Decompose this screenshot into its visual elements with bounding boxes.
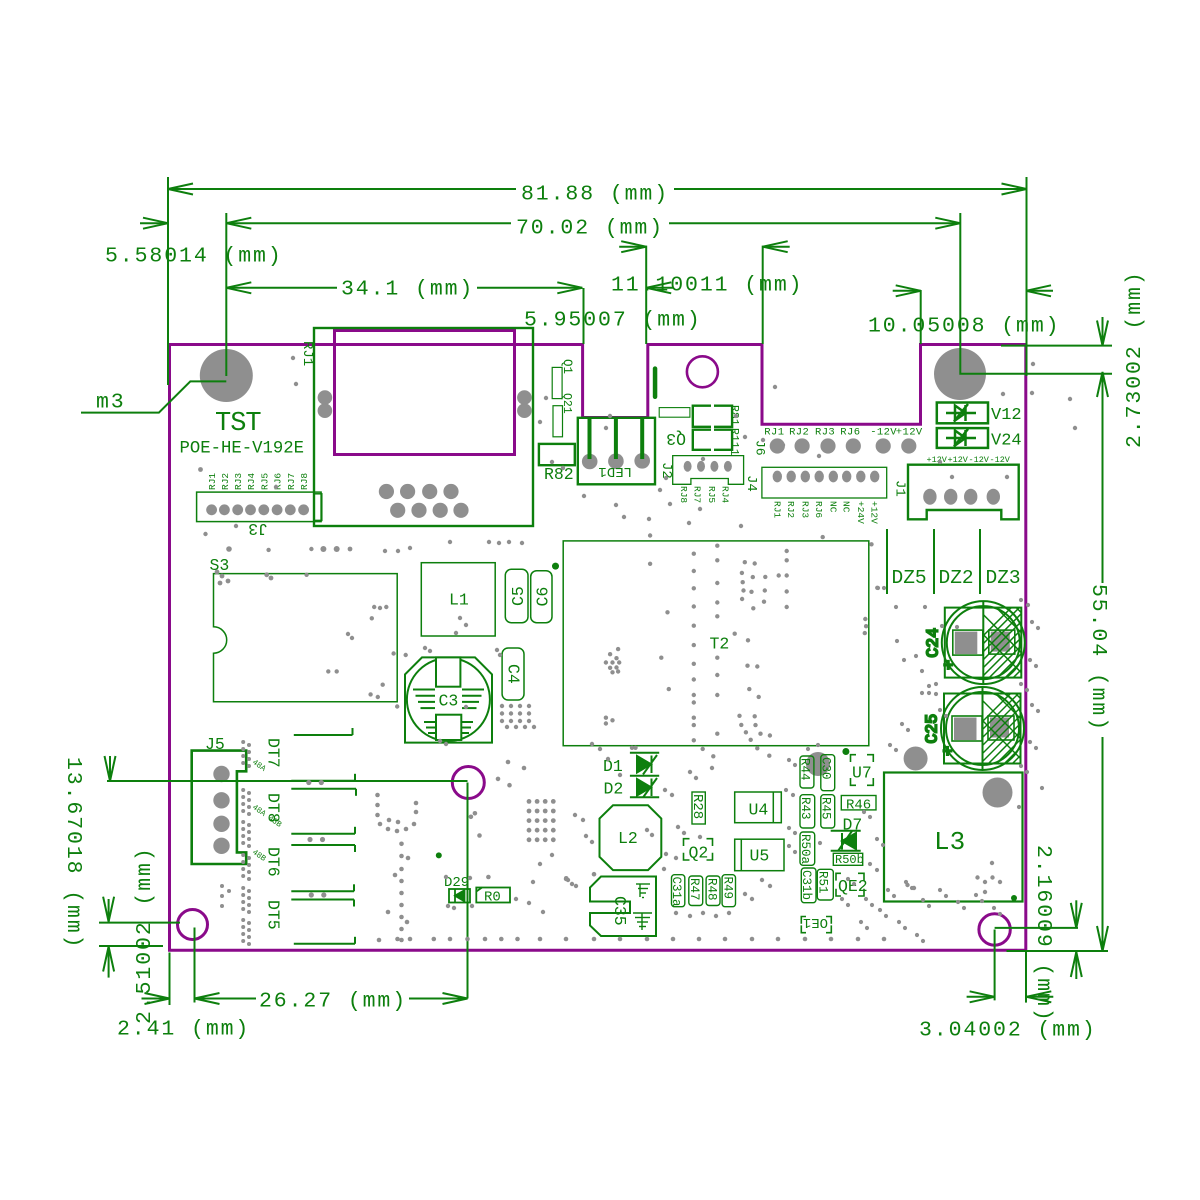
- svg-text:R48: R48: [705, 878, 719, 901]
- resistor R82: [539, 444, 575, 465]
- connector RJ1 courtyard: [314, 328, 533, 526]
- J4 pads: [773, 471, 782, 483]
- svg-text:RJ8: RJ8: [299, 473, 310, 490]
- dim 55.04 extension bottom: [1007, 950, 1109, 952]
- svg-text:RJ7: RJ7: [286, 473, 297, 490]
- mounting hole pad top-right: [934, 348, 986, 400]
- svg-text:D2: D2: [604, 780, 624, 799]
- dim 2.41 arrow: [145, 993, 170, 1004]
- dim 70.02 extension left: [225, 213, 227, 376]
- connector J3: [197, 492, 322, 521]
- svg-text:OE1: OE1: [803, 914, 828, 930]
- diode D29: [449, 889, 470, 903]
- svg-text:L2: L2: [618, 829, 638, 848]
- svg-text:Q2: Q2: [689, 844, 709, 863]
- svg-text:POE-HE-V192E: POE-HE-V192E: [180, 440, 304, 459]
- svg-text:RJ1: RJ1: [207, 473, 218, 490]
- svg-text:J5: J5: [205, 735, 225, 754]
- svg-text:34.1 (mm): 34.1 (mm): [341, 278, 474, 302]
- diode V12: [937, 403, 988, 424]
- svg-text:55.04 (mm): 55.04 (mm): [1086, 584, 1110, 732]
- svg-text:U5: U5: [750, 847, 770, 866]
- dim 2.73002 extension: [1001, 345, 1112, 347]
- svg-text:RJ5: RJ5: [706, 486, 717, 503]
- via dots: [500, 704, 504, 708]
- svg-text:RJ5: RJ5: [259, 473, 270, 490]
- transistor Q2 brackets: [684, 839, 713, 860]
- net DZ ticks: [887, 529, 980, 594]
- svg-text:3.04002 (mm): 3.04002 (mm): [919, 1019, 1097, 1043]
- svg-text:R0: R0: [484, 890, 501, 906]
- connector LED1: [578, 418, 655, 485]
- svg-text:Q3: Q3: [666, 429, 686, 448]
- inductor L2: [600, 805, 662, 870]
- svg-text:C4: C4: [504, 664, 523, 684]
- pad circles near L3: [806, 752, 830, 776]
- svg-text:DT5: DT5: [264, 900, 283, 930]
- diode D1: [630, 753, 659, 775]
- svg-text:C3: C3: [439, 692, 459, 711]
- svg-text:+24V: +24V: [855, 501, 866, 524]
- capacitor C25: [923, 687, 1109, 770]
- dim 10.05008 extension: [920, 290, 922, 344]
- svg-text:DT7: DT7: [264, 738, 283, 768]
- svg-text:J3: J3: [248, 519, 268, 538]
- capacitor C24: [923, 601, 1109, 684]
- svg-text:+12V: +12V: [948, 455, 969, 465]
- mounting hole pad TST top-left: [200, 349, 253, 402]
- svg-text:R111: R111: [727, 428, 740, 456]
- svg-text:C31a: C31a: [669, 877, 683, 908]
- DT6 pads: [291, 884, 354, 906]
- IC S3: [214, 574, 398, 702]
- svg-text:TST: TST: [215, 409, 261, 439]
- diode V24: [937, 428, 988, 448]
- svg-text:R28: R28: [689, 794, 705, 819]
- dim 26.27 line: [195, 998, 257, 1000]
- resistor R111: [693, 430, 732, 450]
- connector J5: [192, 751, 247, 864]
- svg-text:11.10011 (mm): 11.10011 (mm): [611, 274, 803, 298]
- svg-text:70.02 (mm): 70.02 (mm): [516, 217, 664, 241]
- connector J1: [908, 465, 1019, 520]
- svg-text:R44: R44: [798, 758, 812, 781]
- capacitor C6: [531, 571, 552, 623]
- hole mounting bottom-right: [979, 914, 1010, 945]
- svg-text:R45: R45: [819, 797, 833, 820]
- dim 11.10011 arrows: [621, 241, 646, 252]
- dim 2.16009 extension: [995, 927, 1078, 929]
- dim 81.88 line: [168, 188, 516, 190]
- svg-text:NC: NC: [827, 501, 838, 513]
- svg-text:2.16009 (mm): 2.16009 (mm): [1031, 845, 1055, 1023]
- resistor R0: [476, 888, 510, 903]
- capacitor C35: [590, 877, 656, 937]
- dim 2.16009 arrows: [1075, 900, 1077, 928]
- dim 81.88 extension left: [167, 177, 169, 385]
- svg-text:RJ2: RJ2: [785, 501, 796, 518]
- dim 11.10011 extension: [762, 246, 764, 344]
- J1 pads: [923, 489, 936, 505]
- dim 26.27 extensions: [194, 928, 196, 1003]
- dim 2.51002 arrows: [108, 899, 110, 922]
- svg-text:C30: C30: [819, 757, 833, 780]
- dim 81.88 extension right: [1026, 177, 1028, 376]
- capacitor C3: [405, 657, 492, 742]
- svg-text:R46: R46: [846, 798, 871, 814]
- resistor R43: [800, 795, 815, 828]
- transistor QE2 brackets: [836, 873, 864, 896]
- resistor R50a: [800, 832, 815, 865]
- J6 pads: [770, 438, 785, 453]
- svg-text:-12V: -12V: [870, 427, 897, 439]
- svg-text:S3: S3: [210, 556, 230, 575]
- leader m3: [81, 381, 226, 412]
- svg-text:13.67018 (mm): 13.67018 (mm): [61, 757, 85, 949]
- svg-text:DZ2: DZ2: [939, 567, 974, 589]
- svg-text:RJ4: RJ4: [719, 486, 730, 503]
- J3 pads: [206, 504, 217, 515]
- pad bar: [653, 366, 658, 399]
- svg-text:C6: C6: [534, 587, 553, 607]
- svg-text:C24: C24: [923, 628, 942, 658]
- capacitor C5: [505, 569, 528, 622]
- svg-text:DZ5: DZ5: [892, 567, 927, 589]
- svg-text:R50b: R50b: [835, 853, 864, 867]
- resistor R12: [659, 408, 690, 418]
- DT8 pads: [291, 827, 355, 852]
- J2 pads: [684, 461, 692, 472]
- svg-text:C35: C35: [610, 896, 629, 926]
- svg-text:J1: J1: [892, 480, 908, 497]
- svg-text:C25: C25: [923, 714, 942, 744]
- hole mounting middle: [452, 767, 484, 799]
- resistor R45: [821, 795, 835, 828]
- resistor R49: [722, 875, 735, 907]
- RJ1 pin pads: [379, 484, 394, 499]
- diode D2: [630, 776, 659, 798]
- diode D7: [831, 831, 861, 851]
- svg-text:+: +: [943, 657, 953, 676]
- svg-text:LED1: LED1: [598, 463, 632, 479]
- svg-text:RJ1: RJ1: [299, 341, 315, 366]
- svg-text:+12V: +12V: [927, 455, 948, 465]
- svg-text:DT6: DT6: [264, 847, 283, 877]
- dim 70.02 extension right: [960, 213, 1112, 374]
- svg-text:V24: V24: [991, 432, 1022, 451]
- dim 70.02 line: [226, 222, 511, 224]
- svg-text:RJ8: RJ8: [678, 486, 689, 503]
- svg-text:C31b: C31b: [799, 870, 813, 900]
- svg-text:D7: D7: [843, 816, 863, 835]
- svg-text:RJ3: RJ3: [815, 427, 835, 439]
- svg-text:-12V: -12V: [969, 455, 990, 465]
- svg-text:2.51002 (mm): 2.51002 (mm): [133, 846, 157, 1024]
- svg-text:m3: m3: [96, 391, 126, 415]
- resistor R81: [693, 406, 732, 427]
- capacitor C4: [502, 648, 524, 700]
- dim 34.1 line: [226, 287, 337, 289]
- LED1 pads: [582, 454, 598, 470]
- svg-text:RJ1: RJ1: [771, 501, 782, 518]
- svg-text:RJ2: RJ2: [789, 427, 809, 439]
- part OE1 brackets: [801, 917, 831, 933]
- resistor R44: [800, 756, 814, 788]
- svg-text:R82: R82: [544, 465, 574, 484]
- svg-text:+12V: +12V: [896, 427, 923, 439]
- dim 5.95007 arrow: [646, 282, 671, 293]
- resistor R46: [841, 796, 876, 810]
- svg-text:RJ3: RJ3: [799, 501, 810, 518]
- dim 2.51002 extensions: [99, 922, 180, 924]
- DT7 pads: [291, 728, 356, 796]
- svg-text:C5: C5: [509, 586, 528, 606]
- svg-text:R51: R51: [816, 871, 830, 894]
- svg-text:V12: V12: [991, 406, 1022, 425]
- inductor L1: [421, 563, 495, 636]
- RJ1 side pads: [318, 390, 333, 405]
- dim 3.04002 arrows: [970, 991, 995, 1002]
- resistor R50b: [833, 853, 862, 865]
- svg-text:L1: L1: [449, 591, 469, 610]
- svg-text:R43: R43: [798, 797, 812, 820]
- board outline: [170, 345, 1026, 951]
- svg-text:NC: NC: [841, 501, 852, 513]
- dim 3.04002 extensions: [994, 930, 996, 1001]
- svg-text:26.27 (mm): 26.27 (mm): [259, 990, 407, 1014]
- svg-text:10.05008 (mm): 10.05008 (mm): [868, 315, 1060, 339]
- svg-text:RJ6: RJ6: [813, 501, 824, 518]
- svg-text:-12V: -12V: [990, 455, 1011, 465]
- svg-text:R47: R47: [687, 878, 701, 901]
- resistor R47: [689, 876, 703, 906]
- resistor R48: [706, 876, 720, 906]
- svg-text:RJ3: RJ3: [233, 473, 244, 490]
- capacitor C30: [821, 755, 835, 791]
- svg-text:+: +: [943, 743, 953, 762]
- svg-text:+12V: +12V: [869, 501, 880, 524]
- capacitor C31a: [672, 875, 685, 907]
- resistor R28: [692, 792, 705, 824]
- inductor L3: [884, 773, 1023, 902]
- svg-text:QE2: QE2: [838, 877, 868, 896]
- svg-text:J4: J4: [743, 475, 759, 492]
- dim 5.95007 extensions: [583, 288, 585, 344]
- svg-text:J6: J6: [753, 440, 768, 456]
- svg-text:Q1: Q1: [560, 359, 574, 374]
- svg-text:RJ1: RJ1: [764, 427, 784, 439]
- svg-text:RJ7: RJ7: [692, 486, 703, 503]
- IC U5: [735, 839, 784, 871]
- svg-text:Q21: Q21: [560, 393, 573, 414]
- resistor Q21: [553, 406, 563, 437]
- hole via top middle: [687, 356, 718, 387]
- svg-text:2.73002 (mm): 2.73002 (mm): [1123, 270, 1147, 448]
- transformer T2: [563, 541, 869, 746]
- svg-text:DZ3: DZ3: [986, 567, 1021, 589]
- svg-text:T2: T2: [710, 635, 730, 654]
- dim 2.73002 arrows: [1102, 317, 1104, 346]
- svg-text:5.58014 (mm): 5.58014 (mm): [105, 245, 283, 269]
- resistor Q1: [552, 367, 562, 398]
- svg-text:L3: L3: [934, 827, 965, 857]
- dim 55.04 line: [1102, 737, 1104, 951]
- connector RJ1 housing: [335, 331, 515, 455]
- svg-text:R49: R49: [721, 877, 735, 900]
- J5 pads: [213, 766, 229, 782]
- svg-text:U7: U7: [852, 764, 872, 783]
- IC U7 brackets: [851, 755, 874, 786]
- svg-text:RJ2: RJ2: [220, 473, 231, 490]
- svg-text:U4: U4: [749, 801, 769, 820]
- connector J2: [673, 456, 744, 485]
- svg-text:81.88 (mm): 81.88 (mm): [521, 183, 669, 207]
- svg-text:R50a: R50a: [798, 834, 812, 865]
- resistor R51: [817, 869, 833, 900]
- DT5 pads: [294, 937, 355, 944]
- dim 10.05008 arrows: [896, 285, 921, 296]
- svg-text:RJ4: RJ4: [246, 473, 257, 490]
- connector J4: [762, 467, 887, 498]
- dim 13.67018 line: [109, 756, 111, 781]
- svg-text:5.95007 (mm): 5.95007 (mm): [524, 309, 702, 333]
- hole mounting bottom-left: [178, 910, 208, 940]
- svg-text:RJ6: RJ6: [840, 427, 860, 439]
- capacitor C31b: [801, 868, 816, 903]
- IC U4: [735, 792, 782, 823]
- test point dots green: [436, 563, 1017, 901]
- dim 5.58014 arrow: [143, 218, 168, 229]
